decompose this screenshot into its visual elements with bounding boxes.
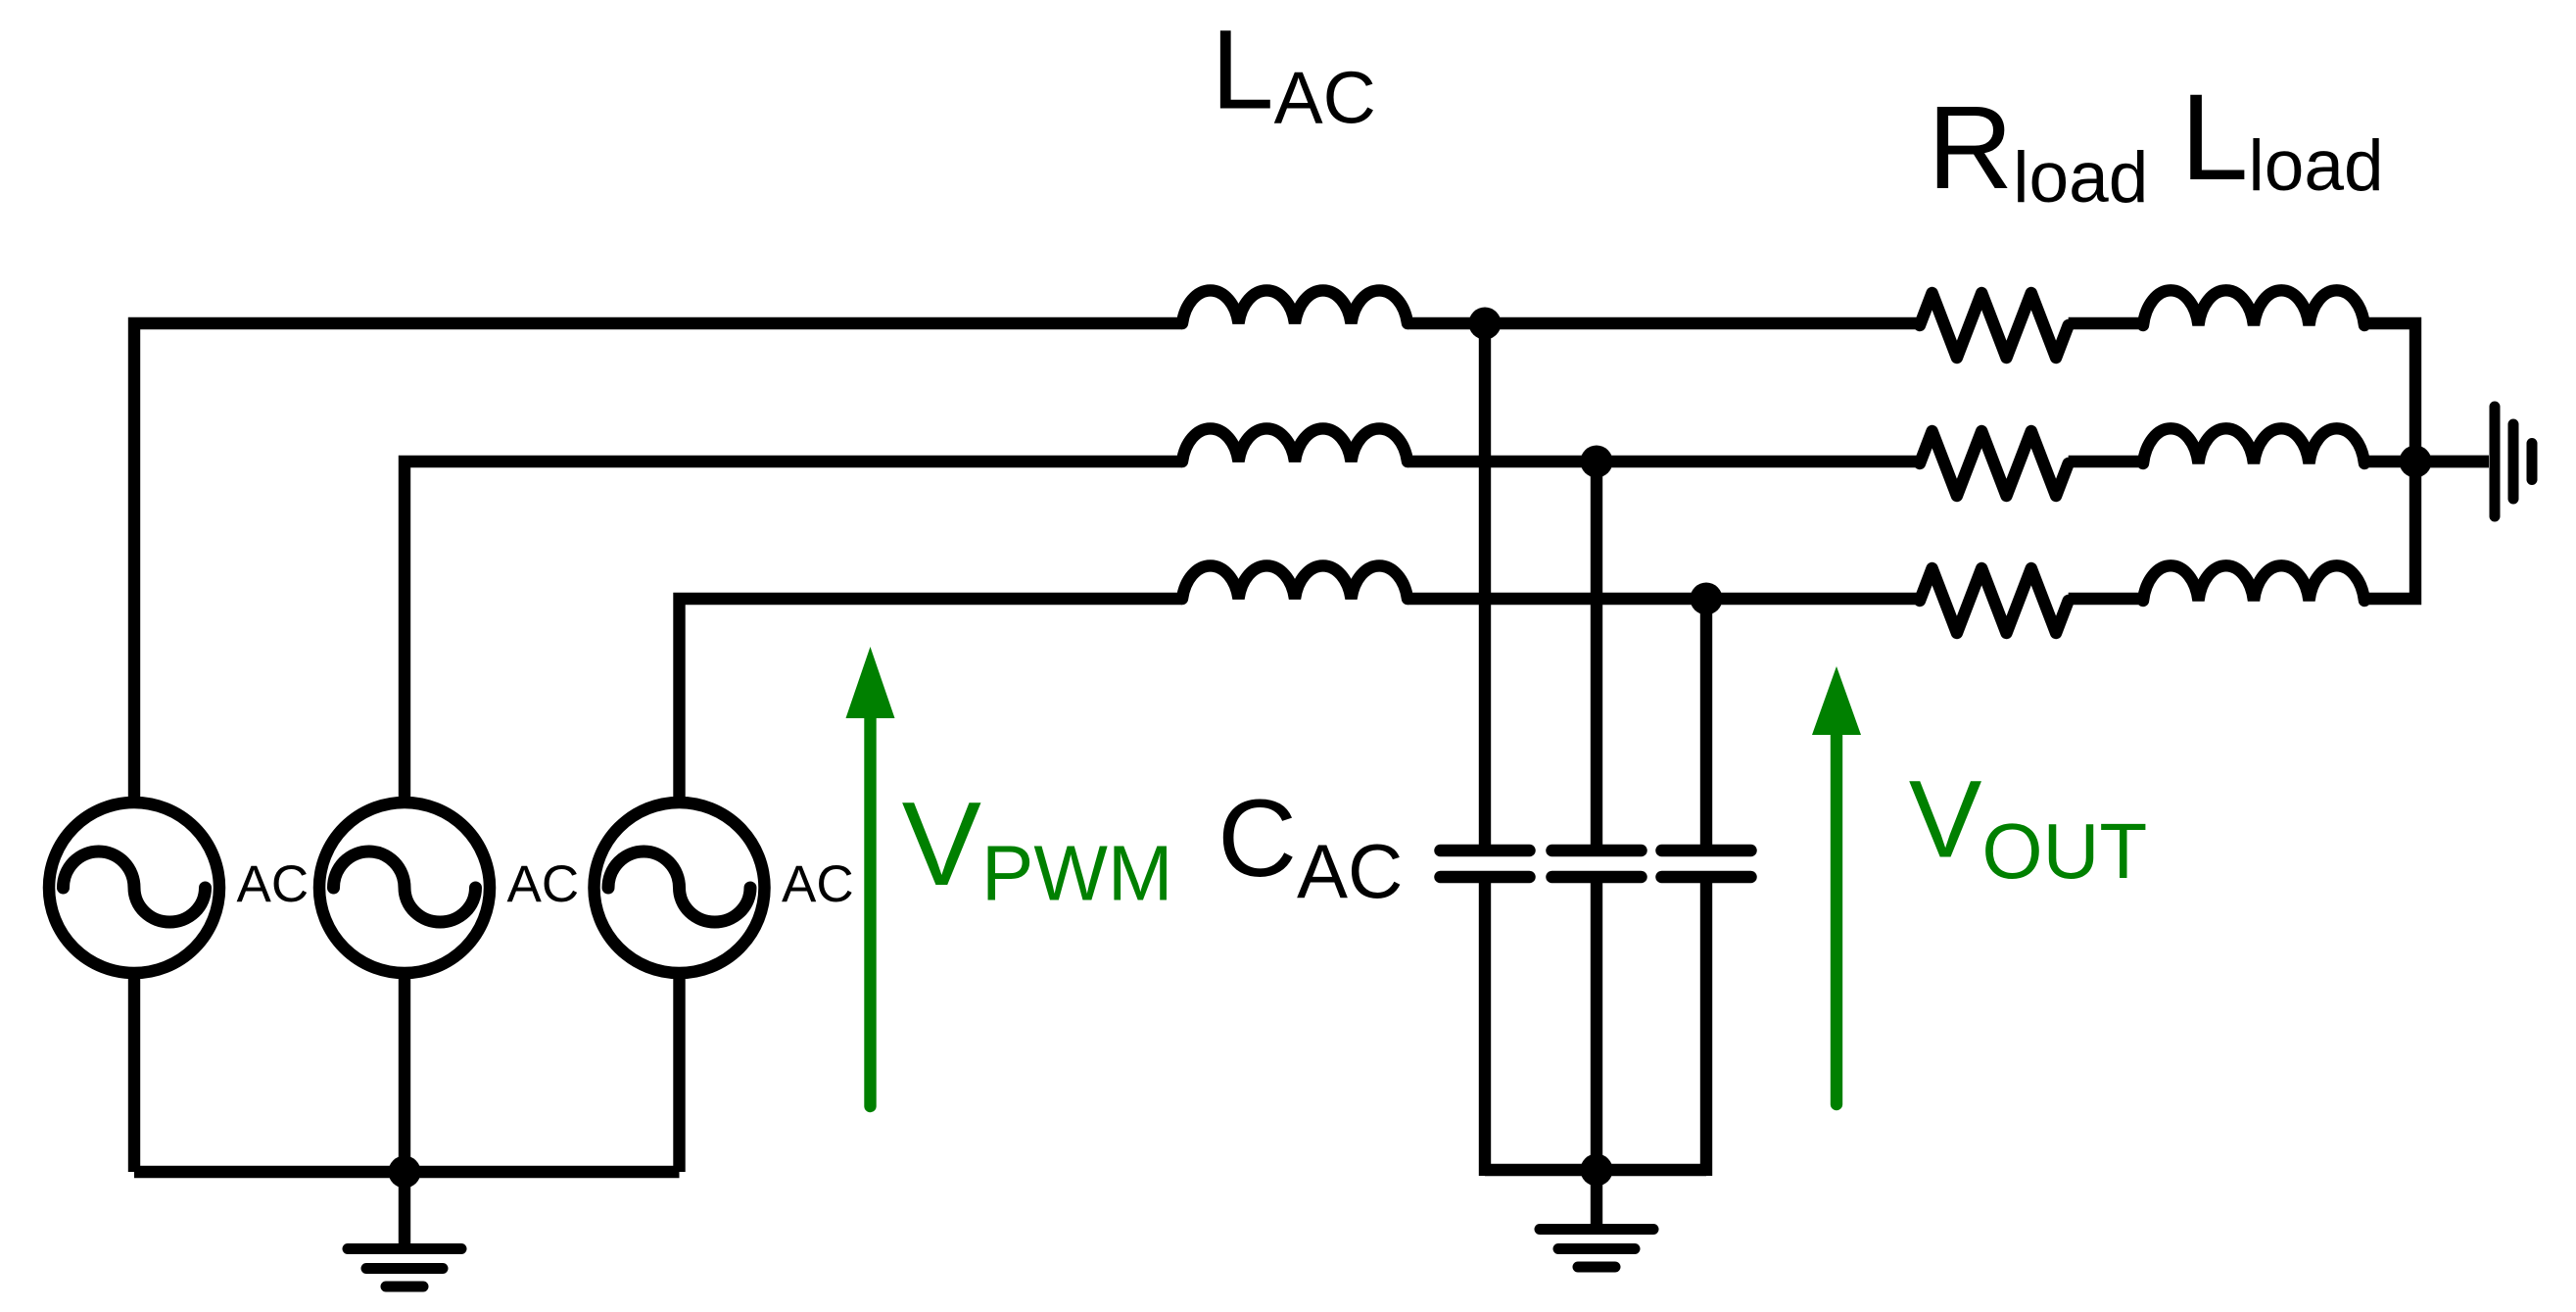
resistor R_load phase B — [1920, 431, 2069, 496]
node: source bus / ground junction — [389, 1156, 421, 1189]
wire phase B: source 2 up and across to L_AC — [405, 462, 1182, 797]
wire: source 2 to bottom bus — [399, 979, 410, 1172]
AC source 2 — [319, 802, 490, 973]
wire phase B: L_AC to R_load — [1407, 456, 1920, 467]
inductor L_load phase A — [2143, 290, 2364, 325]
resistor R_load phase C — [1920, 568, 2069, 633]
ground below capacitors — [1540, 1224, 1653, 1235]
capacitor C_AC 3 — [1662, 845, 1751, 857]
wire phase C: L_AC to R_load — [1407, 593, 1920, 605]
inductor L_load phase B — [2143, 428, 2364, 463]
node C: phase C / C_AC tap — [1691, 583, 1723, 615]
inductor L_AC phase B — [1182, 428, 1407, 462]
wire: cap bus to ground — [1591, 1170, 1602, 1225]
wire phase A: L_load to right vertical, down to node — [2364, 323, 2415, 462]
wire: source 3 to bottom bus — [673, 979, 685, 1172]
resistor R_load phase A — [1920, 293, 2069, 358]
wire phase A: source 1 up and across to L_AC — [134, 323, 1182, 797]
wire phase A: L_AC to R_load — [1407, 317, 1920, 329]
svg-text:AC: AC — [782, 855, 854, 913]
wire to right ground — [2415, 456, 2489, 467]
wire phase C: R_load to L_load — [2069, 593, 2143, 605]
arrow V_OUT — [1831, 730, 1842, 1104]
wire phase C: source 3 up and across to L_AC — [680, 599, 1183, 797]
wire: source bottom bus — [134, 1166, 680, 1178]
svg-text:AC: AC — [237, 855, 310, 913]
wire phase A: R_load to L_load — [2069, 317, 2143, 329]
inductor L_load phase C — [2143, 565, 2364, 601]
arrow V_PWM — [864, 712, 876, 1106]
wire: bus to ground — [399, 1172, 410, 1244]
wire phase B: L_load to right ground — [2364, 456, 2489, 467]
node: right output junction — [2400, 446, 2432, 478]
wire: capacitor bus — [1485, 1164, 1706, 1176]
node: cap bus / ground junction — [1581, 1154, 1613, 1187]
AC source 3 — [595, 802, 765, 973]
capacitor C_AC 1 — [1441, 845, 1530, 857]
wire: C_AC 2 to cap bus — [1591, 883, 1602, 1170]
ground (earth, rotated) right side — [2490, 407, 2501, 516]
inductor L_AC phase C — [1182, 565, 1407, 599]
wire: node B down to C_AC 2 — [1591, 462, 1602, 845]
inductor L_AC phase A — [1182, 290, 1407, 323]
node A: phase A / C_AC tap — [1469, 308, 1502, 340]
wire: node A down to C_AC 1 — [1479, 323, 1491, 845]
wire: node C down to C_AC 3 — [1700, 599, 1712, 845]
wire: C_AC 1 to cap bus — [1479, 883, 1491, 1176]
wire phase B: R_load to L_load — [2069, 456, 2143, 467]
capacitor C_AC 2 — [1552, 845, 1642, 857]
AC source 1 — [49, 802, 219, 973]
wire: source 1 to bottom bus — [128, 979, 140, 1172]
svg-text:AC: AC — [507, 855, 580, 913]
wire phase C: L_load to right vertical, up to node — [2364, 462, 2415, 599]
wire: C_AC 3 to cap bus — [1700, 883, 1712, 1176]
ground below sources — [348, 1243, 461, 1254]
node B: phase B / C_AC tap — [1581, 446, 1613, 478]
